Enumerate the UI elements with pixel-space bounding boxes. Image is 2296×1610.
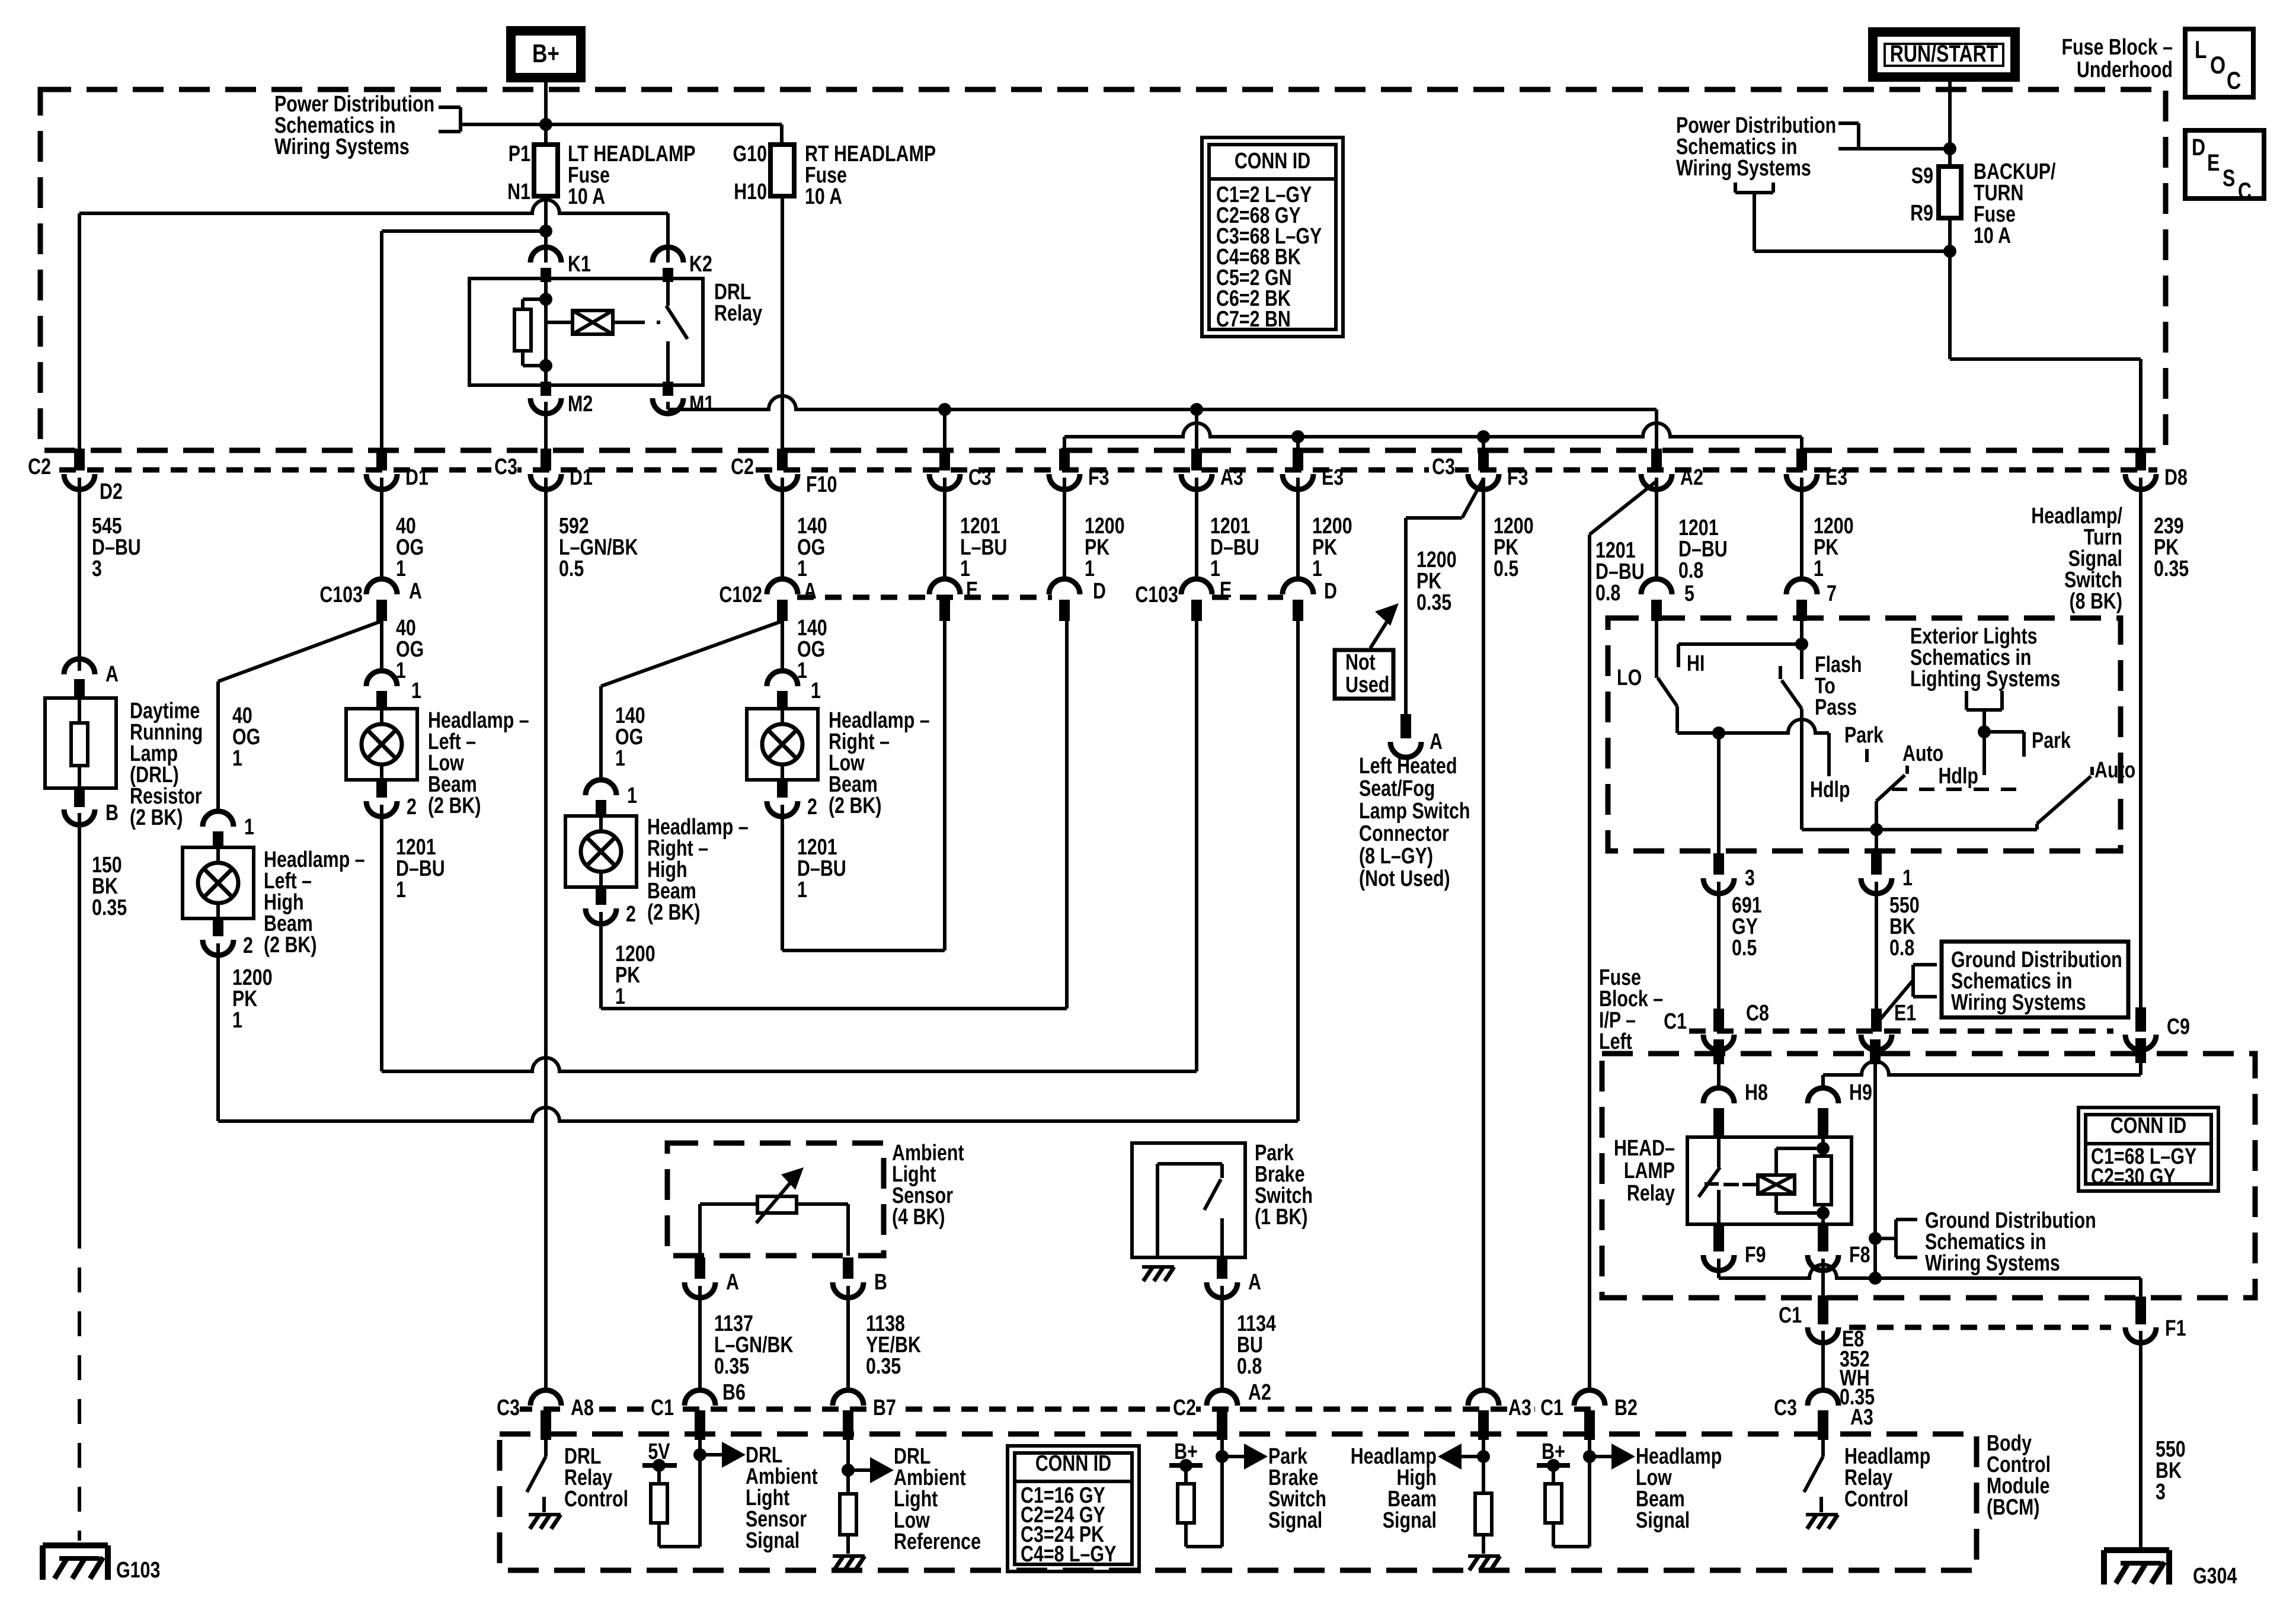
connector A left heated seat/fog lamp switch — [1400, 714, 1411, 738]
connector 2 headlamp right high — [596, 886, 606, 905]
svg-text:A8: A8 — [571, 1395, 594, 1420]
daytime running lamp DRL resistor — [45, 698, 116, 788]
svg-text:Not: Not — [1345, 650, 1376, 675]
svg-text:N1: N1 — [507, 180, 530, 204]
svg-text:A: A — [1248, 1270, 1261, 1295]
ground G304 — [2104, 1547, 2169, 1553]
connector D1 at x=644 — [376, 449, 387, 470]
connector F3 at x=1796 — [1059, 449, 1070, 470]
svg-text:Signal: Signal — [746, 1528, 800, 1553]
svg-text:A2: A2 — [1680, 465, 1703, 490]
svg-text:A: A — [105, 662, 119, 687]
svg-text:(4 BK): (4 BK) — [892, 1205, 945, 1230]
svg-text:E3: E3 — [1825, 465, 1847, 490]
svg-text:Signal: Signal — [1383, 1508, 1437, 1533]
svg-text:1: 1 — [797, 878, 807, 902]
svg-text:L: L — [2195, 37, 2207, 64]
svg-text:Control: Control — [1844, 1487, 1908, 1512]
wire left high beam to E3 bus — [218, 1108, 1298, 1121]
svg-text:0.5: 0.5 — [1494, 556, 1518, 581]
svg-text:A3: A3 — [1220, 465, 1243, 490]
svg-text:0.35: 0.35 — [92, 895, 127, 920]
svg-text:E: E — [1220, 578, 1232, 603]
svg-text:D: D — [2192, 134, 2205, 161]
svg-text:Signal: Signal — [1268, 1508, 1322, 1533]
svg-text:0.8: 0.8 — [1237, 1354, 1262, 1379]
svg-text:1: 1 — [615, 984, 625, 1009]
svg-text:RUN/START: RUN/START — [1890, 40, 1998, 67]
svg-text:Auto: Auto — [2094, 758, 2135, 783]
connector F3 at x=2503 — [1478, 449, 1489, 470]
wire branch to D1 headlamp feed — [382, 229, 546, 233]
svg-text:CONN ID: CONN ID — [2110, 1113, 2186, 1138]
svg-text:10 A: 10 A — [568, 184, 605, 209]
svg-text:Wiring Systems: Wiring Systems — [1951, 990, 2086, 1015]
connector D8 at x=3612 — [2135, 449, 2146, 470]
svg-text:1: 1 — [396, 556, 406, 581]
wire to D8 — [1950, 357, 2141, 361]
svg-text:(1 BK): (1 BK) — [1255, 1205, 1308, 1230]
ground G103 — [43, 1542, 108, 1548]
svg-text:1: 1 — [627, 783, 637, 808]
svg-text:C2: C2 — [28, 454, 51, 479]
svg-text:2: 2 — [407, 795, 417, 820]
svg-text:Relay: Relay — [714, 301, 762, 326]
svg-text:1: 1 — [1210, 556, 1220, 581]
svg-text:C3: C3 — [1432, 454, 1455, 479]
svg-text:1: 1 — [1902, 866, 1913, 891]
connector K2 DRL relay — [653, 247, 683, 263]
svg-text:C8: C8 — [1746, 1001, 1769, 1026]
svg-text:(2 BK): (2 BK) — [130, 805, 183, 830]
svg-text:Fuse Block –: Fuse Block – — [2061, 35, 2173, 60]
svg-text:3: 3 — [92, 556, 102, 581]
wire C3 drop from bus — [943, 409, 946, 449]
svg-text:(2 BK): (2 BK) — [829, 793, 882, 818]
svg-text:C1: C1 — [1540, 1395, 1563, 1420]
svg-text:A: A — [804, 579, 817, 604]
svg-text:LO: LO — [1617, 665, 1642, 690]
svg-text:S: S — [2223, 165, 2235, 191]
svg-text:0.8: 0.8 — [1889, 936, 1914, 961]
svg-text:Wiring Systems: Wiring Systems — [1925, 1251, 2060, 1276]
BCM DRL relay control driver — [544, 1440, 548, 1457]
svg-text:K1: K1 — [568, 252, 591, 277]
svg-text:10 A: 10 A — [805, 184, 842, 209]
node B+ junction — [539, 118, 552, 131]
park brake switch contacts — [1157, 1162, 1222, 1166]
svg-text:3: 3 — [2156, 1480, 2166, 1505]
wire B+ feed to RT fuse — [461, 123, 782, 126]
svg-text:C4=8 L–GY: C4=8 L–GY — [1021, 1542, 1116, 1567]
wire RT fuse H10 to F10 — [781, 196, 784, 449]
svg-text:Connector: Connector — [1359, 821, 1449, 846]
wire pin7 flash feed — [1800, 621, 1803, 679]
svg-text:H8: H8 — [1745, 1080, 1768, 1105]
connector F8 headlamp relay — [1818, 1224, 1828, 1251]
connector 7 headlamp switch — [1786, 579, 1817, 594]
svg-text:F8: F8 — [1849, 1243, 1870, 1267]
svg-text:1: 1 — [1085, 556, 1095, 581]
svg-text:D1: D1 — [405, 465, 428, 490]
connector BCM B2 — [1574, 1390, 1605, 1406]
svg-text:C3: C3 — [968, 465, 992, 490]
svg-text:Signal: Signal — [1636, 1508, 1690, 1533]
connector H9 headlamp relay — [1808, 1088, 1838, 1103]
connector C103 pins E D (right) — [1212, 595, 1283, 600]
bracket to power distribution reference (left) — [439, 105, 461, 109]
svg-text:0.5: 0.5 — [559, 556, 584, 581]
svg-text:(8 BK): (8 BK) — [2069, 589, 2122, 614]
connector BCM A2 — [1207, 1390, 1237, 1406]
svg-text:Lamp Switch: Lamp Switch — [1359, 799, 1470, 824]
wire M2 to C3 D1 — [544, 402, 548, 449]
wire B+ to LT fuse — [544, 78, 548, 145]
svg-text:0.8: 0.8 — [1678, 558, 1703, 583]
svg-text:1: 1 — [1814, 556, 1824, 581]
connector A DRL resistor — [64, 659, 95, 674]
headlamp relay switch — [1717, 1137, 1721, 1167]
svg-text:B+: B+ — [532, 39, 559, 68]
wire A2 to headlamp switch pin 5 — [1655, 478, 1658, 581]
headlamp/turn signal switch dashed box — [1608, 618, 2121, 851]
connector M2 DRL relay — [541, 382, 551, 396]
svg-text:Lighting Systems: Lighting Systems — [1910, 667, 2060, 692]
fuse block I/P dashed box — [1602, 1054, 2255, 1298]
wire N1 crossover to D2 and K2 — [79, 200, 668, 213]
in-line connector dashed line — [59, 468, 2157, 473]
svg-text:CONN ID: CONN ID — [1035, 1451, 1111, 1476]
svg-text:HI: HI — [1687, 651, 1705, 676]
fuse block underhood dashed border — [40, 89, 2166, 450]
svg-text:F3: F3 — [1088, 465, 1109, 490]
connector 2 headlamp left high — [213, 917, 223, 936]
svg-text:LAMP: LAMP — [1624, 1158, 1675, 1183]
svg-text:Control: Control — [564, 1487, 628, 1512]
svg-text:0.8: 0.8 — [1595, 581, 1620, 606]
svg-text:C2: C2 — [731, 454, 754, 479]
headlamp relay resistor — [1821, 1137, 1825, 1156]
svg-text:1: 1 — [1312, 556, 1322, 581]
svg-text:M2: M2 — [568, 392, 593, 417]
switch Hdlp contact right — [1982, 732, 1986, 775]
svg-text:1: 1 — [411, 678, 421, 703]
reference Ground Distribution Schematics (boxed) — [1876, 980, 1913, 1024]
DRL relay mechanical link — [629, 321, 660, 324]
svg-text:C: C — [2227, 68, 2241, 95]
svg-text:D: D — [1093, 579, 1106, 604]
svg-text:1: 1 — [797, 556, 807, 581]
svg-text:Seat/Fog: Seat/Fog — [1359, 776, 1435, 801]
svg-text:C3: C3 — [497, 1395, 520, 1420]
svg-text:Relay: Relay — [1627, 1181, 1675, 1206]
wire branch to wiring systems bracket — [1754, 249, 1950, 253]
svg-text:E: E — [2207, 149, 2220, 176]
switch Hdlp contact left — [1827, 733, 1831, 776]
svg-text:Park: Park — [2032, 728, 2071, 753]
BCM ambient light sensor signal input — [698, 1440, 702, 1547]
svg-text:B7: B7 — [873, 1395, 896, 1420]
svg-text:A3: A3 — [1508, 1395, 1531, 1420]
bracket exterior lights reference — [1965, 691, 1968, 710]
svg-text:Left Heated: Left Heated — [1359, 754, 1457, 779]
svg-text:C1: C1 — [1664, 1009, 1687, 1034]
svg-text:O: O — [2210, 52, 2225, 79]
wire F8 to E8 — [1821, 1259, 1825, 1295]
CONN ID box BCM — [1008, 1446, 1139, 1571]
svg-text:1: 1 — [615, 746, 625, 771]
svg-text:A: A — [409, 579, 422, 604]
svg-text:D8: D8 — [2164, 465, 2188, 490]
connector H8 headlamp relay — [1703, 1088, 1734, 1103]
switch mechanical link — [1892, 788, 2027, 791]
svg-text:F9: F9 — [1745, 1243, 1766, 1267]
svg-text:Hdlp: Hdlp — [1938, 764, 1978, 789]
fuse block I/P connector row — [1689, 1029, 2113, 1034]
connector A park brake switch — [1217, 1259, 1227, 1279]
CONN ID box underhood — [1202, 137, 1343, 337]
svg-text:F10: F10 — [806, 472, 837, 497]
DESC box — [2185, 130, 2264, 199]
connector 3 headlamp switch output — [1713, 853, 1724, 875]
connector A ambient light sensor — [695, 1257, 705, 1279]
svg-text:B2: B2 — [1614, 1395, 1638, 1420]
svg-text:C7=2 BN: C7=2 BN — [1216, 307, 1291, 332]
svg-text:A2: A2 — [1248, 1380, 1271, 1405]
svg-text:C2: C2 — [1173, 1395, 1196, 1420]
svg-text:(2 BK): (2 BK) — [264, 933, 317, 958]
connector 5 headlamp switch — [1641, 579, 1672, 594]
wire A2 diagonal to B2 — [1590, 481, 1657, 534]
svg-text:F1: F1 — [2165, 1316, 2186, 1341]
svg-text:B: B — [105, 801, 119, 825]
svg-text:S9: S9 — [1911, 164, 1933, 188]
BCM headlamp high beam signal output — [1482, 1440, 1485, 1493]
BCM headlamp low beam signal output — [1588, 1440, 1591, 1547]
connector E3 at x=3040 — [1796, 449, 1807, 470]
connector B DRL resistor — [74, 789, 85, 807]
svg-text:Hdlp: Hdlp — [1810, 777, 1850, 802]
svg-text:2: 2 — [626, 902, 636, 927]
connector 1 headlamp right low — [767, 671, 798, 686]
headlamp left low beam lamp — [346, 709, 417, 780]
connector 1 headlamp right high — [586, 780, 616, 795]
wire E8 352 WH 0.35 — [1821, 1331, 1825, 1391]
connector C102 pins A E D — [797, 595, 1052, 600]
body control module dashed box — [500, 1434, 1977, 1570]
reference Ground Distribution Schematics (lower) — [1869, 1232, 1882, 1245]
switch LO/HI selector — [1655, 621, 1658, 678]
wire N1 to K1 with junction — [544, 196, 548, 263]
wire 1200 PK bus — [1064, 423, 1802, 437]
connector BCM A3 — [1808, 1390, 1838, 1406]
fuse RT HEADLAMP 10A — [770, 145, 794, 196]
wire R9 output — [1948, 218, 1952, 359]
svg-text:Auto: Auto — [1902, 741, 1943, 766]
connector E3 at x=2190 — [1293, 449, 1303, 470]
power feed B+ box — [511, 31, 581, 78]
connector BCM A8 — [530, 1390, 561, 1406]
wire RUN/START to BACKUP fuse — [1948, 77, 1952, 167]
park brake switch box — [1132, 1143, 1245, 1257]
connector F10 at x=1320 — [777, 449, 788, 470]
svg-text:(2 BK): (2 BK) — [647, 900, 701, 925]
svg-text:C102: C102 — [719, 582, 762, 607]
power feed RUN/START box — [1873, 32, 2015, 77]
connector A2 at x=2795 — [1651, 449, 1662, 470]
connector BCM A3 — [1468, 1390, 1499, 1406]
svg-text:K2: K2 — [689, 252, 712, 277]
svg-text:C103: C103 — [1135, 582, 1178, 607]
svg-text:1: 1 — [232, 746, 242, 771]
svg-text:C9: C9 — [2167, 1014, 2190, 1039]
connector 1 headlamp left high — [203, 811, 234, 827]
svg-text:1: 1 — [244, 815, 254, 840]
svg-text:0.35: 0.35 — [866, 1354, 901, 1379]
svg-text:C2=30 GY: C2=30 GY — [2091, 1164, 2176, 1189]
connector K1 DRL relay — [530, 247, 561, 263]
headlamp right low beam lamp — [747, 709, 818, 780]
BCM park brake switch signal input — [1220, 1440, 1224, 1547]
svg-text:3: 3 — [1745, 866, 1755, 891]
connector F1 — [2135, 1297, 2146, 1324]
connector C3 at x=1594 — [939, 449, 950, 470]
svg-text:Underhood: Underhood — [2077, 57, 2173, 82]
wire LO output to pin 3 — [1677, 719, 1829, 733]
svg-text:0.35: 0.35 — [714, 1354, 749, 1379]
svg-text:C1: C1 — [1779, 1303, 1802, 1328]
svg-text:HEAD–: HEAD– — [1614, 1136, 1675, 1161]
svg-text:0.35: 0.35 — [1416, 590, 1451, 615]
svg-text:B: B — [874, 1270, 887, 1295]
svg-text:R9: R9 — [1910, 201, 1933, 226]
svg-text:(8 L–GY): (8 L–GY) — [1359, 844, 1433, 869]
svg-text:C103: C103 — [319, 582, 363, 607]
ambient light sensor dashed box — [667, 1143, 884, 1256]
svg-text:A: A — [1430, 729, 1443, 754]
DRL relay switch — [666, 282, 670, 306]
svg-text:E: E — [966, 578, 978, 603]
svg-text:G103: G103 — [116, 1558, 160, 1583]
wire left low beam to A3 bus — [382, 1058, 1197, 1071]
svg-text:E3: E3 — [1322, 465, 1344, 490]
connector 2 headlamp right low — [777, 779, 788, 798]
fuse BACKUP/TURN 10A — [1939, 167, 1961, 218]
svg-text:0.35: 0.35 — [2154, 556, 2189, 581]
svg-text:Wiring Systems: Wiring Systems — [1676, 156, 1811, 181]
connector D2 at x=134 — [74, 449, 85, 470]
svg-text:2: 2 — [243, 933, 253, 958]
svg-text:CONN ID: CONN ID — [1235, 149, 1310, 174]
svg-text:D: D — [1324, 579, 1337, 604]
svg-text:1: 1 — [232, 1008, 242, 1033]
CONN ID box fuse block I/P — [2078, 1108, 2218, 1191]
svg-text:D1: D1 — [570, 465, 593, 490]
DRL relay coil — [546, 321, 573, 324]
wire F9 to F1 ground bus — [1717, 1259, 1721, 1278]
svg-text:C3: C3 — [494, 454, 517, 479]
svg-text:M1: M1 — [689, 392, 714, 417]
svg-text:D2: D2 — [100, 479, 123, 504]
connector BCM B6 — [685, 1390, 715, 1406]
connector C8 fuse block I/P — [1713, 1009, 1724, 1032]
BCM connector dashed line — [516, 1407, 1594, 1412]
connector 1 headlamp left low — [366, 671, 397, 686]
svg-text:1: 1 — [396, 878, 406, 902]
DRL relay internal resistor branch — [544, 282, 548, 382]
svg-text:2: 2 — [807, 795, 817, 820]
switch common to pin 1 — [1802, 828, 2037, 831]
connector C103 pin A (left) — [366, 579, 397, 594]
svg-text:(2 BK): (2 BK) — [428, 793, 481, 818]
headlamp left high beam lamp — [183, 847, 254, 918]
headlamp relay coil — [1817, 1142, 1830, 1155]
connector 2 headlamp left low — [376, 779, 387, 798]
bracket to power distribution reference (right) — [1838, 121, 1859, 125]
BCM headlamp relay control driver — [1821, 1440, 1825, 1457]
LOC box — [2185, 29, 2253, 97]
svg-text:5: 5 — [1684, 581, 1694, 606]
svg-text:H10: H10 — [734, 180, 767, 204]
connector BCM B7 — [833, 1390, 864, 1406]
svg-text:Used: Used — [1345, 673, 1389, 697]
connector F9 headlamp relay — [1713, 1224, 1724, 1251]
wire C8 to H8 — [1713, 1039, 1724, 1064]
wire C9 to H9 — [2135, 1038, 2146, 1063]
svg-text:H9: H9 — [1849, 1080, 1872, 1105]
svg-text:B6: B6 — [722, 1380, 746, 1405]
svg-text:F3: F3 — [1507, 465, 1528, 490]
svg-text:(Not Used): (Not Used) — [1359, 866, 1450, 891]
connector C1/E8 — [1818, 1295, 1828, 1324]
svg-text:C3: C3 — [1774, 1395, 1797, 1420]
svg-text:Pass: Pass — [1815, 695, 1857, 720]
fuse LT HEADLAMP 10A — [534, 145, 558, 196]
svg-text:Reference: Reference — [894, 1529, 981, 1554]
ambient light sensor photoresistor — [700, 1202, 848, 1206]
connector M1 DRL relay — [663, 382, 673, 396]
svg-text:A3: A3 — [1850, 1405, 1873, 1430]
svg-text:(BCM): (BCM) — [1987, 1495, 2039, 1520]
svg-text:7: 7 — [1827, 581, 1837, 606]
svg-text:1: 1 — [811, 678, 821, 703]
BCM ambient light low reference — [846, 1440, 850, 1494]
svg-text:Left: Left — [1599, 1029, 1632, 1054]
wire diagonal to right high beam — [601, 621, 782, 686]
wire M1 bus 1201 feed — [666, 402, 670, 409]
connector 1 headlamp switch output — [1871, 853, 1882, 875]
connector C9 fuse block I/P — [2135, 1007, 2146, 1032]
switch Park contact right — [1984, 730, 2024, 734]
headlamp right high beam lamp — [565, 816, 637, 887]
not used box with arrow — [1335, 650, 1393, 699]
svg-text:E1: E1 — [1894, 1001, 1916, 1026]
wire diagonal to left high beam — [218, 621, 382, 681]
switch flash to pass — [1779, 666, 1782, 679]
wire A3 drop from bus — [1195, 409, 1198, 449]
svg-text:Wiring Systems: Wiring Systems — [274, 135, 410, 159]
HEADLAMP relay box — [1687, 1137, 1851, 1224]
wire E1 to ground bus — [1870, 1039, 1881, 1064]
svg-text:A: A — [726, 1270, 739, 1295]
svg-text:0.5: 0.5 — [1732, 936, 1757, 961]
svg-text:G10: G10 — [733, 142, 767, 167]
connector B ambient light sensor — [843, 1257, 853, 1279]
svg-text:C1: C1 — [651, 1395, 674, 1420]
connector A3 at x=2019 — [1191, 449, 1202, 470]
wire 1200 PK 0.35 to unused connector — [1462, 479, 1483, 518]
connector E1 fuse block I/P — [1871, 1009, 1882, 1032]
